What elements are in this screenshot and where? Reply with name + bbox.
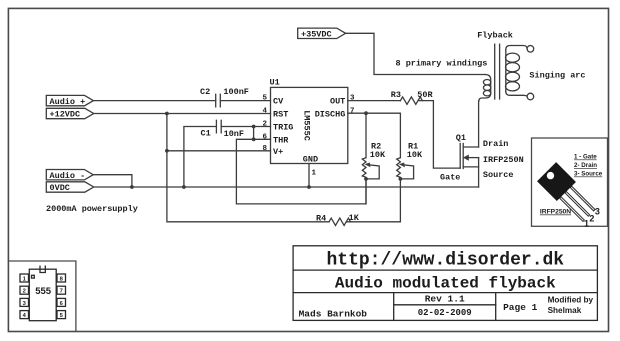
svg-text:8: 8	[262, 145, 267, 153]
svg-text:Shelmak: Shelmak	[548, 306, 582, 315]
DIP-8 555 package	[20, 266, 66, 321]
svg-text:1: 1	[312, 170, 317, 178]
svg-text:1: 1	[584, 219, 589, 229]
title block	[293, 246, 597, 321]
wire DISCHG pin7 to R1 top	[348, 113, 401, 158]
svg-text:Singing arc: Singing arc	[529, 71, 585, 81]
svg-text:RST: RST	[273, 110, 288, 120]
junction TRIG link	[252, 125, 256, 129]
op-amp U1 LM555C body	[270, 78, 348, 165]
svg-text:50R: 50R	[417, 90, 433, 100]
wire TRIG-THR link	[253, 127, 255, 140]
svg-text:2: 2	[262, 121, 267, 129]
svg-text:THR: THR	[273, 135, 289, 145]
wire +35VDC to primary	[346, 33, 485, 74]
wire +12V rail down to R4	[167, 114, 329, 222]
wire V+ pin8	[167, 150, 271, 152]
svg-text:U1: U1	[270, 78, 280, 88]
svg-text:Mads Barnkob: Mads Barnkob	[299, 309, 368, 320]
svg-text:10K: 10K	[407, 150, 423, 160]
wire 0VDC rail	[94, 186, 479, 188]
svg-text:10nF: 10nF	[224, 129, 244, 139]
svg-text:2000mA powersupply: 2000mA powersupply	[46, 204, 138, 214]
net label Audio -	[46, 170, 93, 181]
wire source down	[478, 158, 480, 187]
svg-text:Audio +: Audio +	[50, 97, 86, 107]
wire R4 to R1 bottom	[346, 179, 400, 222]
wire R3 to gate	[418, 101, 460, 169]
wire drain up	[478, 101, 480, 147]
junction U1 gnd	[307, 185, 311, 189]
svg-text:Gate: Gate	[440, 173, 460, 183]
svg-text:Flyback: Flyback	[477, 31, 513, 41]
junction 12V-RST	[165, 112, 169, 116]
svg-text:R4: R4	[316, 214, 326, 224]
junction R2 bottom	[364, 177, 368, 181]
svg-text:100nF: 100nF	[223, 87, 249, 97]
svg-text:8 primary windings: 8 primary windings	[396, 58, 488, 68]
svg-text:Audio modulated flyback: Audio modulated flyback	[335, 275, 556, 293]
svg-text:3- Source: 3- Source	[574, 171, 603, 178]
svg-text:Q1: Q1	[456, 133, 466, 143]
junction V+	[165, 149, 169, 153]
svg-text:2: 2	[589, 214, 594, 224]
svg-text:7: 7	[350, 107, 355, 115]
potentiometer R1 10K	[397, 142, 423, 179]
svg-text:Modified by: Modified by	[548, 296, 594, 305]
net label 0VDC	[46, 182, 93, 193]
modified by text	[548, 296, 594, 316]
transformer core	[495, 44, 500, 99]
svg-text:Source: Source	[483, 170, 514, 180]
wire Audio- down to 0VDC	[93, 175, 132, 187]
svg-text:C1: C1	[201, 128, 211, 138]
junction THR link	[252, 137, 256, 141]
transformer primary	[479, 75, 491, 102]
transistor Q1 IRFP250N	[440, 133, 524, 183]
svg-text:+12VDC: +12VDC	[50, 110, 81, 120]
svg-text:7: 7	[60, 289, 63, 295]
svg-text:5: 5	[262, 95, 267, 103]
svg-text:IRFP250N: IRFP250N	[483, 155, 524, 165]
wire GND stub of U1	[308, 164, 310, 188]
svg-text:V+: V+	[273, 147, 283, 157]
svg-text:LM555C: LM555C	[302, 110, 312, 141]
svg-text:OUT: OUT	[330, 97, 345, 107]
svg-text:6: 6	[262, 133, 267, 141]
wire R2 top	[365, 113, 367, 158]
wire R2 bottom down	[365, 179, 367, 204]
wire OUT pin3 to R3	[348, 100, 401, 102]
svg-text:http://www.disorder.dk: http://www.disorder.dk	[326, 250, 564, 270]
potentiometer R2 10K	[362, 142, 386, 179]
svg-text:R3: R3	[391, 90, 401, 100]
terminal top	[527, 46, 534, 53]
inset box DIP package	[8, 261, 76, 331]
TO-247 package drawing	[537, 162, 599, 224]
terminal bottom	[527, 93, 534, 100]
pin legend	[574, 154, 603, 178]
svg-text:Rev 1.1: Rev 1.1	[425, 294, 465, 305]
junction R1 bottom	[399, 177, 403, 181]
svg-text:0VDC: 0VDC	[50, 183, 70, 193]
junction C1 gnd	[182, 185, 186, 189]
svg-text:Audio -: Audio -	[50, 171, 86, 181]
svg-text:3: 3	[350, 95, 355, 103]
svg-text:DISCHG: DISCHG	[315, 109, 346, 119]
svg-text:IRFP250N: IRFP250N	[540, 209, 571, 216]
svg-text:TRIG: TRIG	[273, 123, 293, 133]
transformer secondary	[506, 46, 528, 97]
inset box TO-247	[532, 138, 608, 226]
svg-text:Drain: Drain	[483, 139, 509, 149]
label IRFP250N underlined	[540, 209, 571, 216]
svg-text:02-02-2009: 02-02-2009	[418, 308, 472, 318]
wire THR pin6 to R2 bottom	[236, 139, 366, 204]
net label +12VDC	[46, 108, 93, 119]
resistor R3 50R	[391, 90, 434, 104]
capacitor C2	[200, 87, 249, 107]
junction Audio- 0VDC	[130, 185, 134, 189]
wire C1 to TRIG pin2	[221, 126, 270, 128]
net label +35VDC	[298, 28, 346, 39]
junction R2 top	[364, 111, 368, 115]
wire C1 left to ground	[184, 127, 217, 188]
resistor R4 1K	[316, 213, 360, 226]
wire Audio+ to C2	[93, 100, 215, 102]
svg-text:4: 4	[262, 108, 267, 116]
capacitor C1	[201, 120, 245, 139]
svg-text:GND: GND	[303, 155, 318, 165]
svg-text:2: 2	[23, 289, 26, 295]
wire +12VDC to RST pin4	[94, 113, 271, 115]
svg-text:+35VDC: +35VDC	[301, 30, 332, 40]
wire C2 to CV pin5	[220, 100, 270, 102]
svg-text:CV: CV	[273, 97, 284, 107]
net label Audio +	[46, 95, 93, 106]
svg-text:C2: C2	[200, 87, 210, 97]
svg-text:2- Drain: 2- Drain	[574, 162, 597, 169]
svg-text:1 - Gate: 1 - Gate	[574, 154, 597, 161]
svg-text:10K: 10K	[370, 150, 386, 160]
svg-text:555: 555	[35, 286, 52, 297]
svg-text:Page 1: Page 1	[503, 302, 538, 313]
svg-text:3: 3	[595, 207, 600, 217]
